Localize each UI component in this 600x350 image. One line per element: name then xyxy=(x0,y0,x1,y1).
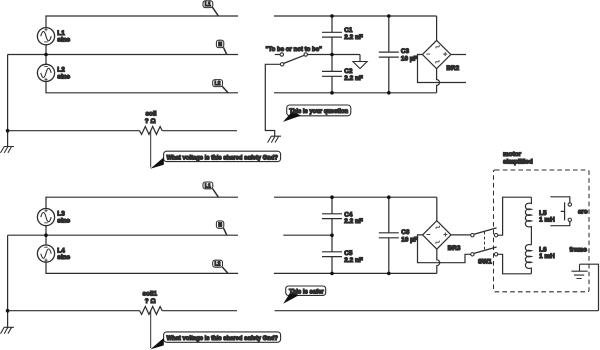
svg-text:What voltage is this shared sa: What voltage is this shared safety Gnd? xyxy=(167,154,279,161)
svg-text:1 mH: 1 mH xyxy=(539,217,555,224)
svg-text:frame: frame xyxy=(570,246,588,253)
wire BR2 top lead xyxy=(436,16,438,40)
wire BR3 plus output to SW1 xyxy=(451,234,471,236)
callout leader (bottom) xyxy=(150,311,152,348)
voltage source L4 xyxy=(37,245,54,262)
svg-text:? Ω: ? Ω xyxy=(145,298,156,305)
wire left vertical (bottom section) xyxy=(7,235,9,327)
wire bottom bus (top section) xyxy=(274,92,437,94)
wire frame to bottom rail xyxy=(580,264,599,311)
junction dot C3 top xyxy=(387,14,391,18)
wire left vertical (top section) xyxy=(7,55,9,147)
wire mid stub (bottom section) xyxy=(283,234,331,236)
node flag L2 (top) xyxy=(213,80,228,93)
callout bubble "What voltage..." (top) xyxy=(150,151,280,169)
switch SW1 lower pole xyxy=(471,247,498,256)
svg-text:10 µF: 10 µF xyxy=(401,237,418,244)
arc contact (pushbutton) xyxy=(550,197,588,226)
svg-text:C3: C3 xyxy=(401,48,410,55)
capacitor C5 xyxy=(322,235,363,273)
wire BR2 bottom lead with hop xyxy=(437,69,440,93)
capacitor C1 xyxy=(322,16,363,55)
svg-text:"To be or not to be": "To be or not to be" xyxy=(266,46,323,53)
svg-text:soil1: soil1 xyxy=(143,291,158,298)
svg-text:simplified: simplified xyxy=(503,158,533,165)
wire top bus (bottom section) xyxy=(274,196,437,198)
svg-text:2.2 nF: 2.2 nF xyxy=(344,34,363,41)
node flag L1 (bottom) xyxy=(203,182,218,197)
wire L1 top (top section) xyxy=(46,16,238,28)
ground earth (bottom-left of bottom section) xyxy=(1,327,14,333)
bridge rectifier BR3 xyxy=(423,221,461,253)
capacitor C4 xyxy=(322,197,363,235)
callout bubble "This is safer" xyxy=(283,286,326,304)
resistor soil xyxy=(140,127,163,135)
wire L2 bottom (bottom section) xyxy=(46,262,238,273)
wire BR3 minus output to SW1 xyxy=(418,235,471,263)
wire N (bottom section) xyxy=(8,226,238,245)
svg-text:1 mH: 1 mH xyxy=(539,253,555,260)
svg-text:N: N xyxy=(218,223,222,229)
inductor L5 xyxy=(525,197,555,245)
wire L1 top (bottom section) xyxy=(46,197,238,208)
node flag N (top) xyxy=(216,40,226,54)
junction dot C3 bottom xyxy=(387,91,391,95)
svg-text:N: N xyxy=(218,42,222,48)
switch "To be or not to be" xyxy=(266,46,323,66)
junction dot C4/C5 mid xyxy=(330,233,334,237)
inductor L6 xyxy=(525,245,555,274)
wire bottom bus (bottom section) xyxy=(274,272,437,274)
ground triangle (top section) xyxy=(353,55,367,69)
svg-text:sine: sine xyxy=(57,73,70,80)
wire top bus (top section) xyxy=(274,15,437,17)
callout bubble "This is your question" xyxy=(283,105,351,122)
wire soil1 left xyxy=(8,310,140,312)
wire switch common to ground xyxy=(265,64,280,136)
junction dot C1 top xyxy=(330,14,334,18)
wire soil left xyxy=(8,130,140,132)
svg-text:What voltage is this shared sa: What voltage is this shared safety Gnd? xyxy=(167,335,279,342)
wire mid (top section) xyxy=(307,54,360,56)
svg-text:L2: L2 xyxy=(215,81,221,87)
svg-text:2.2 nF: 2.2 nF xyxy=(344,75,363,82)
svg-text:sine: sine xyxy=(57,254,70,261)
capacitor C2 xyxy=(322,55,363,93)
wire bottom rail xyxy=(275,310,599,312)
wire N (top section) xyxy=(8,45,238,64)
svg-text:L1: L1 xyxy=(205,183,211,189)
junction dot C6 bottom xyxy=(387,272,391,276)
svg-text:SW1: SW1 xyxy=(478,258,492,265)
svg-text:10 µF: 10 µF xyxy=(401,56,418,63)
junction dot C5 bottom xyxy=(330,272,334,276)
svg-text:sine: sine xyxy=(57,218,70,225)
wire soil right xyxy=(162,130,237,132)
voltage source L3 xyxy=(37,209,54,226)
voltage source L1 xyxy=(37,28,54,45)
node flag N (bottom) xyxy=(216,221,226,235)
junction dot C2 bottom xyxy=(330,91,334,95)
svg-text:motor: motor xyxy=(503,151,522,158)
svg-text:2.2 nF: 2.2 nF xyxy=(344,218,363,225)
wire L2 bottom (top section) xyxy=(46,82,238,93)
svg-text:C6: C6 xyxy=(401,229,410,236)
capacitor C6 xyxy=(379,197,418,273)
svg-text:L1: L1 xyxy=(205,2,211,8)
svg-text:L2: L2 xyxy=(215,262,221,268)
callout bubble "What voltage..." (bottom) xyxy=(150,332,280,350)
voltage source L2 xyxy=(37,64,54,81)
node flag L1 (top) xyxy=(203,1,218,16)
svg-text:soil: soil xyxy=(146,111,157,118)
svg-text:sine: sine xyxy=(57,37,70,44)
svg-text:2.2 nF: 2.2 nF xyxy=(344,257,363,264)
motor box (dashed) xyxy=(494,170,590,292)
capacitor C3 xyxy=(379,16,418,93)
svg-text:This is safer: This is safer xyxy=(289,288,324,295)
node flag L2 (bottom) xyxy=(213,260,228,273)
svg-text:? Ω: ? Ω xyxy=(145,118,156,125)
resistor soil1 xyxy=(140,307,163,315)
bridge rectifier BR2 xyxy=(422,40,459,72)
switch SW1 gang link xyxy=(484,232,486,250)
switch SW1 upper pole xyxy=(471,228,498,237)
callout leader (top) xyxy=(150,131,152,168)
svg-text:arc: arc xyxy=(578,209,588,216)
svg-text:This is your question: This is your question xyxy=(289,108,348,115)
ground earth (bottom-left of top section) xyxy=(1,147,14,153)
node N junction dot xyxy=(44,53,48,57)
svg-text:BR2: BR2 xyxy=(446,65,459,72)
wire BR3 top lead xyxy=(436,197,438,221)
junction dot soil node xyxy=(6,129,10,133)
wire BR2 plus output xyxy=(451,54,466,56)
wire soil1 right xyxy=(162,310,237,312)
node N junction dot (bottom) xyxy=(44,233,48,237)
junction dot soil1 node xyxy=(6,309,10,313)
ground earth (switch, top section) xyxy=(268,136,281,142)
frame ground xyxy=(570,246,588,278)
junction dot C4 top xyxy=(330,195,334,199)
junction dot C1/C2 mid xyxy=(330,53,334,57)
wire BR3 bottom lead with hop xyxy=(437,249,440,273)
junction dot C6 top xyxy=(387,195,391,199)
wire SW1 lower to coil bottom xyxy=(498,254,532,273)
svg-text:BR3: BR3 xyxy=(448,245,461,252)
wire SW1 upper to coil top xyxy=(498,197,532,235)
wire BR2 minus output xyxy=(418,55,467,83)
